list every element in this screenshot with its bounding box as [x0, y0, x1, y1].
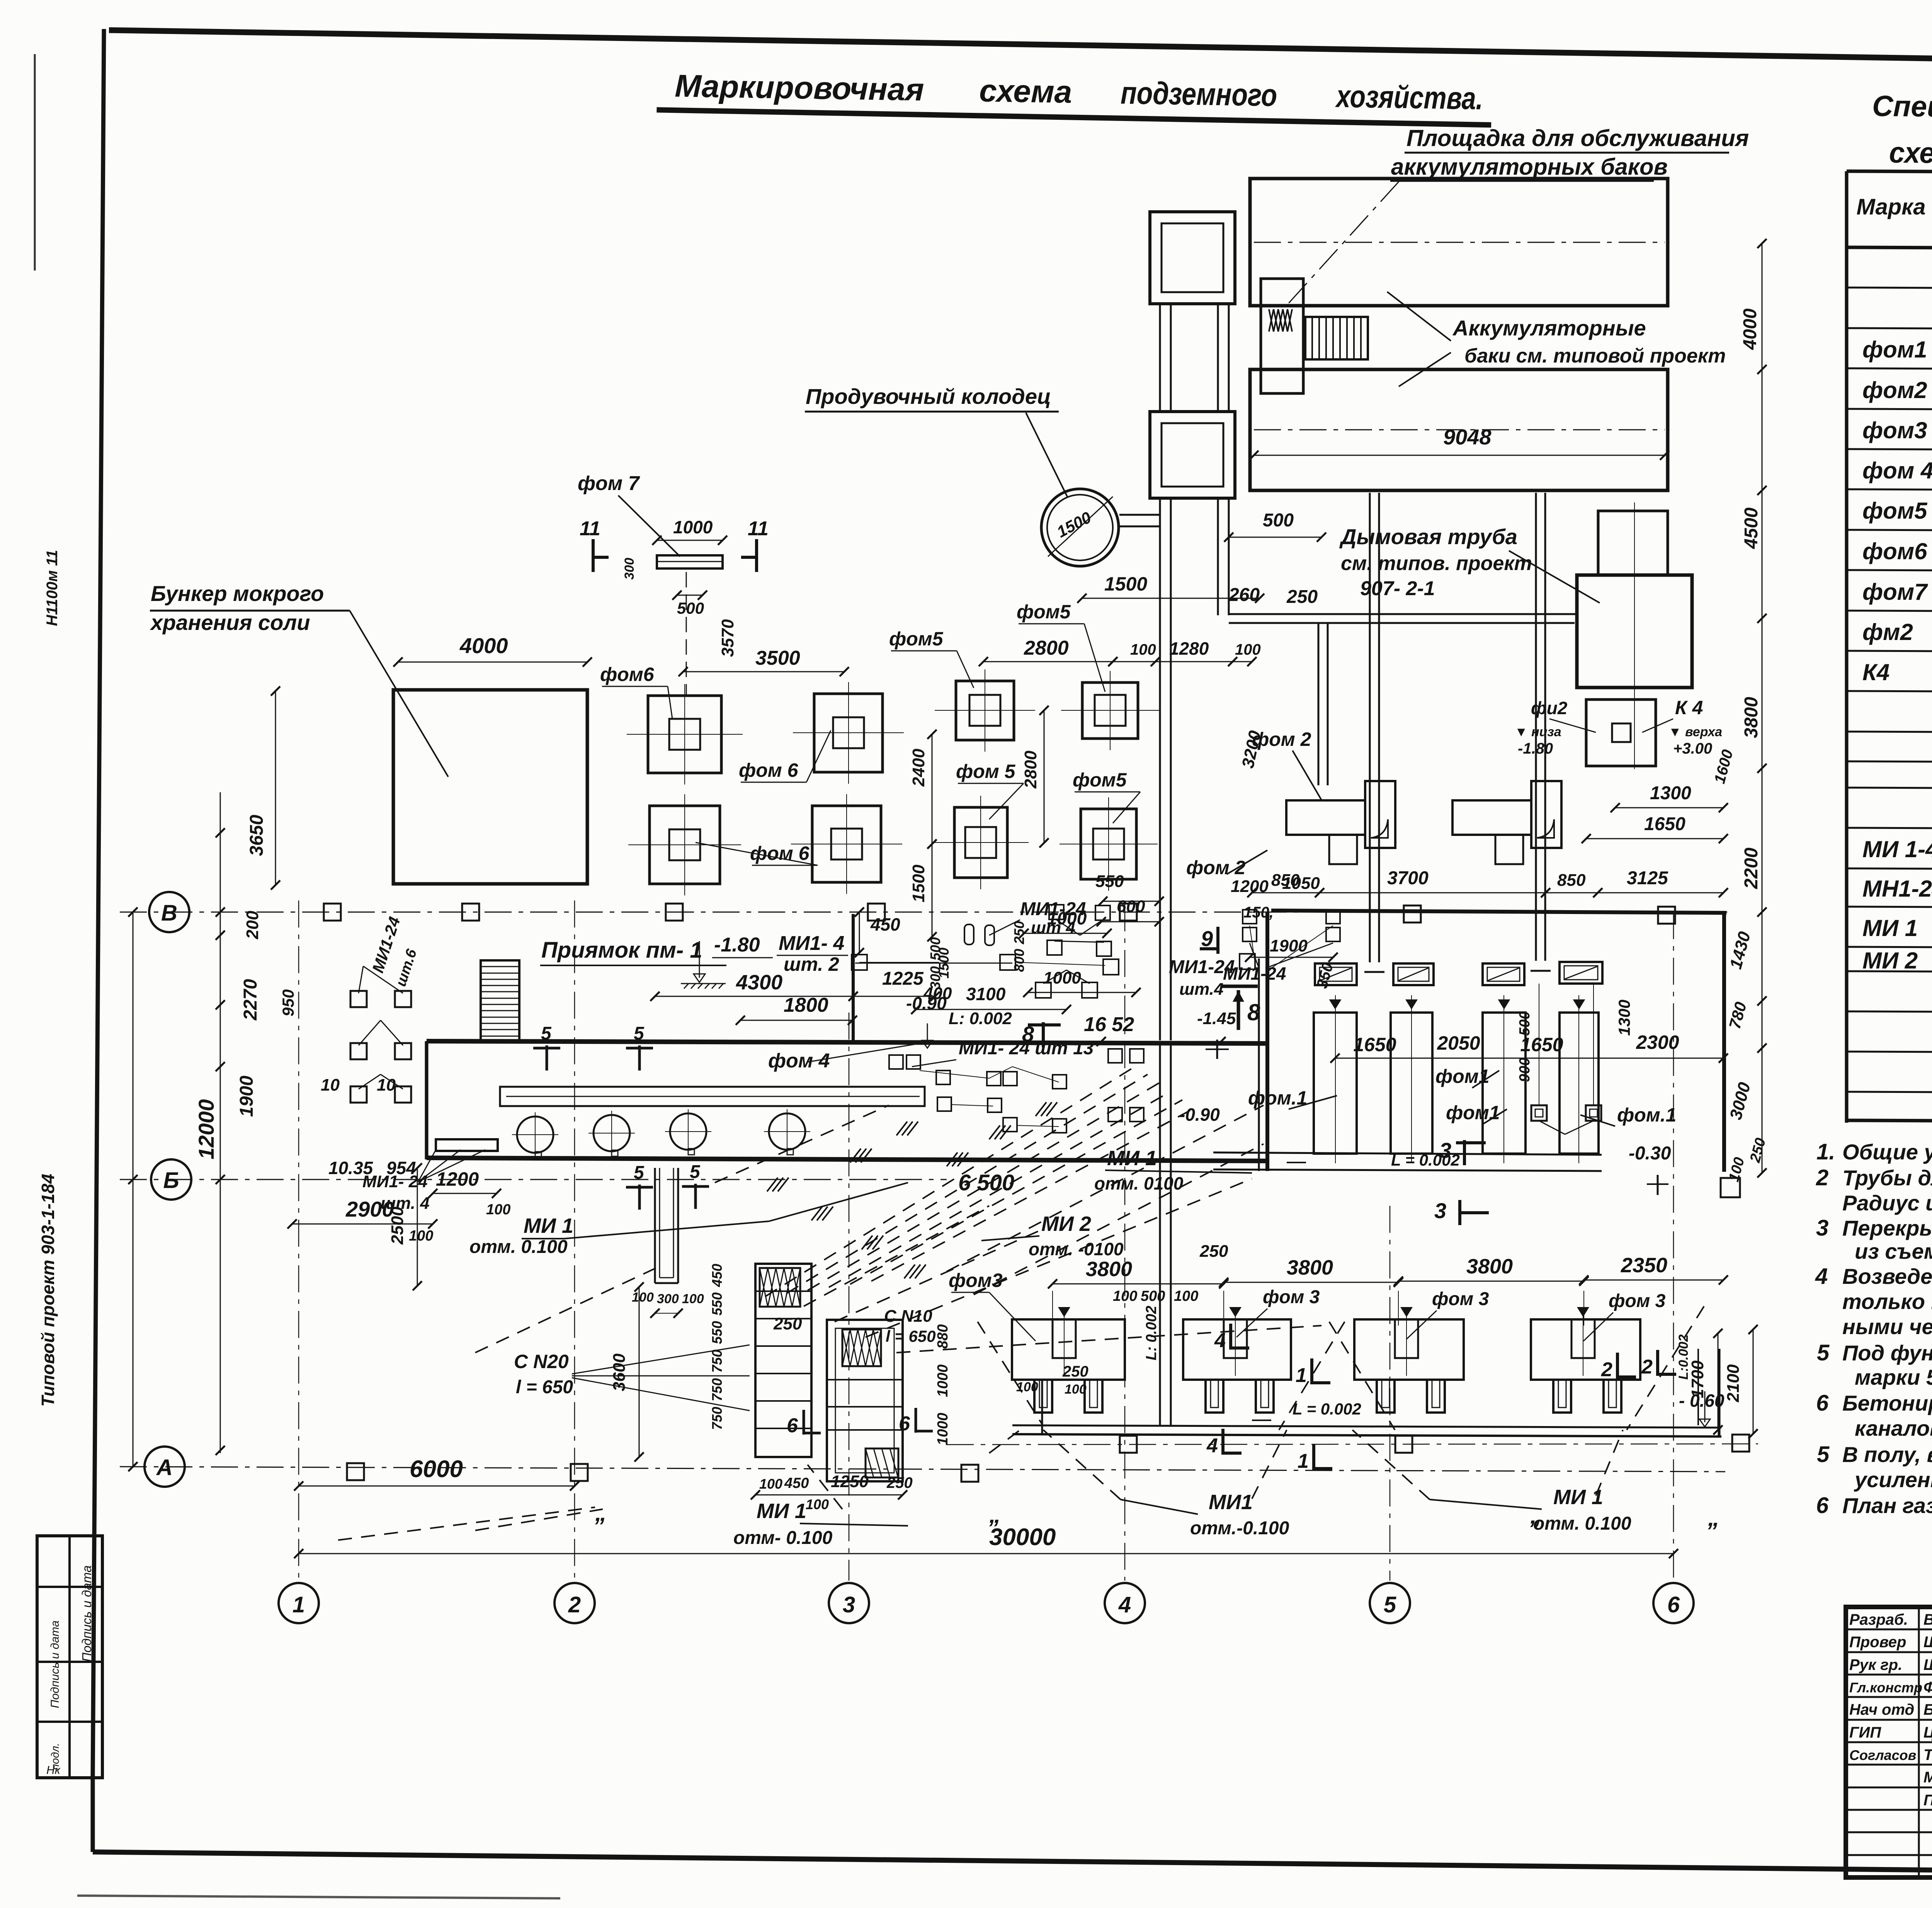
svg-text:1: 1: [1296, 1364, 1307, 1387]
svg-text:Шенкман: Шенкман: [1923, 1634, 1932, 1651]
svg-text:1650: 1650: [1353, 1034, 1396, 1055]
svg-text:6 500: 6 500: [958, 1170, 1014, 1195]
svg-text:МИ 1: МИ 1: [1107, 1147, 1157, 1170]
svg-text:2: 2: [568, 1592, 581, 1617]
svg-text:1300: 1300: [1650, 783, 1691, 803]
svg-text:2300: 2300: [1636, 1031, 1679, 1053]
svg-text:Рук гр.: Рук гр.: [1849, 1656, 1902, 1673]
svg-text:усиленный пол см черт.: усиленный пол см черт. АР-6: [1854, 1467, 1932, 1492]
svg-text:1200: 1200: [436, 1168, 479, 1190]
svg-text:фом 7: фом 7: [578, 472, 640, 495]
svg-text:2800: 2800: [1021, 751, 1040, 789]
svg-text:250: 250: [773, 1314, 802, 1333]
svg-text:фом 4: фом 4: [1862, 458, 1932, 483]
svg-text:100: 100: [1130, 641, 1156, 658]
svg-text:1500: 1500: [909, 865, 928, 902]
svg-text:фом 4: фом 4: [768, 1050, 830, 1072]
svg-text:отм. -0100: отм. -0100: [1029, 1239, 1124, 1259]
svg-text:5: 5: [634, 1023, 645, 1044]
svg-text:фом 6: фом 6: [739, 759, 799, 781]
svg-text:1000: 1000: [673, 517, 713, 537]
svg-text:3570: 3570: [718, 619, 737, 657]
svg-text:Разраб.: Разраб.: [1849, 1611, 1908, 1628]
svg-text:Возведение фундаментов под: Возведение фундаментов под оборудование …: [1842, 1264, 1932, 1288]
svg-text:16 52: 16 52: [1084, 1013, 1134, 1036]
svg-text:3500: 3500: [755, 647, 800, 669]
svg-text:отм- 0.100: отм- 0.100: [733, 1528, 833, 1548]
svg-text:1800: 1800: [784, 994, 828, 1016]
svg-text:Дымовая труба: Дымовая труба: [1339, 524, 1517, 549]
svg-text:Нач отд: Нач отд: [1849, 1701, 1914, 1718]
svg-text:План газоходов см черт.: План газоходов см черт. КЖ-8: [1842, 1493, 1932, 1518]
svg-text:l = 650: l = 650: [516, 1377, 573, 1397]
svg-text:Согласов: Согласов: [1849, 1747, 1916, 1763]
svg-text:500: 500: [1141, 1288, 1165, 1304]
svg-text:Типовой проект 903-1-184: Типовой проект 903-1-184: [38, 1174, 58, 1407]
svg-text:3: 3: [843, 1592, 855, 1617]
svg-text:Подпись и дата: Подпись и дата: [80, 1565, 94, 1662]
svg-text:Радиус изгиба труб - 600 м: Радиус изгиба труб - 600 мм.: [1842, 1191, 1932, 1215]
svg-text:5: 5: [634, 1163, 645, 1183]
svg-text:Бирюков: Бирюков: [1923, 1701, 1932, 1718]
svg-text:5: 5: [1817, 1442, 1830, 1467]
svg-text:880: 880: [935, 1324, 951, 1349]
svg-text:отм.-0.100: отм.-0.100: [1190, 1518, 1289, 1539]
svg-text:С N20: С N20: [514, 1351, 569, 1372]
svg-text:250: 250: [1062, 1363, 1088, 1380]
svg-text:2500: 2500: [388, 1207, 407, 1245]
svg-text:2200: 2200: [1741, 848, 1762, 889]
svg-text:из съемных щитов см лис: из съемных щитов см лист Км-3 .: [1855, 1239, 1932, 1263]
svg-text:550: 550: [709, 1292, 725, 1316]
svg-text:„: „: [1530, 1503, 1542, 1528]
svg-text:3: 3: [1816, 1215, 1828, 1241]
svg-text:-1.80: -1.80: [714, 934, 760, 956]
svg-text:6000: 6000: [410, 1456, 463, 1482]
svg-text:МИ 1-4: МИ 1-4: [1862, 836, 1932, 862]
svg-text:4000: 4000: [1740, 308, 1760, 350]
svg-text:фом6: фом6: [600, 664, 655, 685]
svg-text:▼ низа: ▼ низа: [1515, 725, 1561, 739]
svg-text:фом1: фом1: [1862, 337, 1927, 363]
svg-text:-1.80: -1.80: [1518, 740, 1553, 757]
svg-text:баки см. типовой проект: баки см. типовой проект: [1464, 345, 1726, 367]
svg-text:Провер: Провер: [1849, 1634, 1906, 1651]
svg-text:6: 6: [787, 1414, 798, 1437]
svg-text:Под фундаменты и каналы: Под фундаменты и каналы принята подготов…: [1842, 1341, 1932, 1365]
svg-text:Терехов: Терехов: [1923, 1746, 1932, 1763]
svg-text:1: 1: [1298, 1450, 1309, 1472]
svg-text:1000: 1000: [1047, 908, 1087, 928]
svg-text:2: 2: [1601, 1358, 1612, 1381]
svg-text:шт.4: шт.4: [1179, 980, 1223, 999]
svg-text:1000: 1000: [1043, 968, 1081, 987]
svg-text:„: „: [989, 1502, 1001, 1528]
svg-text:Гл.констр: Гл.констр: [1849, 1680, 1922, 1695]
svg-text:шт. 2: шт. 2: [784, 953, 839, 975]
svg-text:-0.30: -0.30: [1629, 1143, 1671, 1164]
svg-text:9: 9: [1201, 926, 1213, 951]
svg-text:1280: 1280: [1169, 638, 1209, 659]
svg-text:3700: 3700: [1387, 868, 1429, 888]
svg-text:каналов производить без: каналов производить без перерыва во врем…: [1855, 1416, 1932, 1440]
svg-text:1: 1: [293, 1592, 305, 1617]
svg-text:100: 100: [1065, 1382, 1087, 1397]
svg-text:100: 100: [1235, 641, 1261, 658]
svg-text:4: 4: [1206, 1435, 1218, 1457]
svg-text:фом7: фом7: [1862, 579, 1928, 605]
svg-text:МИ 2: МИ 2: [1862, 948, 1918, 974]
svg-text:К4: К4: [1862, 659, 1889, 685]
svg-text:ГИП: ГИП: [1849, 1724, 1881, 1741]
svg-text:3650: 3650: [247, 815, 267, 856]
svg-text:+3.00: +3.00: [1673, 740, 1712, 757]
svg-text:800: 800: [1011, 949, 1027, 972]
svg-text:В: В: [161, 900, 177, 926]
svg-text:Виленская: Виленская: [1923, 1611, 1932, 1628]
svg-text:5: 5: [1384, 1592, 1396, 1617]
svg-text:Трубы для кабелей проложит: Трубы для кабелей проложить под наблюден…: [1842, 1166, 1932, 1190]
svg-text:10: 10: [321, 1076, 340, 1094]
svg-text:300: 300: [927, 966, 943, 989]
svg-text:250: 250: [1286, 587, 1318, 607]
svg-text:Перекрытие каналов рифлено: Перекрытие каналов рифленой сталью выпол…: [1842, 1216, 1932, 1240]
svg-text:„: „: [595, 1500, 607, 1526]
svg-text:4: 4: [1118, 1592, 1131, 1617]
svg-text:30000: 30000: [989, 1524, 1056, 1551]
svg-text:Подпись и дата: Подпись и дата: [49, 1620, 61, 1708]
svg-text:отм. 0.100: отм. 0.100: [1533, 1513, 1631, 1534]
svg-text:фом5: фом5: [1862, 498, 1928, 524]
svg-text:Цыгрик: Цыгрик: [1923, 1724, 1932, 1741]
svg-text:1650: 1650: [1644, 814, 1685, 834]
svg-text:Бетонирование стенок и дни: Бетонирование стенок и днища неармирован…: [1842, 1391, 1932, 1415]
svg-text:100: 100: [1113, 1288, 1137, 1304]
svg-text:100: 100: [759, 1476, 782, 1492]
svg-text:МН1-24: МН1-24: [1862, 876, 1932, 902]
svg-text:5: 5: [690, 1162, 701, 1182]
svg-text:хозяйства.: хозяйства.: [1335, 79, 1483, 116]
svg-text:фом2: фом2: [1862, 377, 1927, 403]
svg-text:МИ 2: МИ 2: [1041, 1212, 1091, 1236]
svg-text:только после сверки рабочих: только после сверки рабочих чертежей фун…: [1842, 1289, 1932, 1314]
svg-text:фи2: фи2: [1531, 698, 1568, 718]
svg-text:схема: схема: [979, 73, 1072, 110]
svg-text:Продувочный колодец: Продувочный колодец: [806, 384, 1051, 408]
svg-text:В полу, в местах установки: В полу, в местах установки закладных изд…: [1842, 1442, 1932, 1467]
svg-text:фом6: фом6: [1862, 538, 1927, 564]
svg-text:МИ 1: МИ 1: [757, 1500, 806, 1523]
svg-text:МИ 1: МИ 1: [1553, 1486, 1603, 1509]
svg-text:500: 500: [1263, 510, 1294, 531]
svg-text:450: 450: [870, 914, 900, 934]
svg-text:ными чертежами полученными: ными чертежами полученными от завода- из…: [1842, 1314, 1932, 1339]
svg-text:1700: 1700: [1688, 1360, 1707, 1398]
svg-text:подземного: подземного: [1121, 75, 1277, 113]
svg-text:фом.1: фом.1: [1617, 1104, 1676, 1126]
svg-text:хранения соли: хранения соли: [150, 610, 310, 635]
svg-text:схемам расположенным на: схемам расположенным на листе: [1889, 136, 1932, 174]
svg-text:МИ 1: МИ 1: [1862, 915, 1918, 941]
svg-text:Марка: Марка: [1856, 194, 1925, 220]
svg-text:550: 550: [1095, 872, 1124, 891]
svg-text:фом5: фом5: [889, 628, 944, 650]
svg-text:МИ1: МИ1: [1209, 1491, 1253, 1514]
svg-text:l = 650: l = 650: [886, 1327, 936, 1345]
svg-text:-1.45: -1.45: [1197, 1009, 1236, 1028]
svg-text:Н1100м 11: Н1100м 11: [44, 550, 61, 626]
svg-text:1500: 1500: [1104, 573, 1147, 595]
svg-text:3800: 3800: [1741, 697, 1762, 738]
svg-text:2270: 2270: [240, 979, 261, 1021]
svg-text:▼ верха: ▼ верха: [1668, 725, 1722, 739]
svg-text:L: 0.002: L: 0.002: [949, 1009, 1012, 1028]
svg-text:Б: Б: [163, 1168, 179, 1193]
svg-text:1050: 1050: [1282, 874, 1320, 893]
svg-text:МИ1-24: МИ1-24: [1223, 963, 1286, 984]
svg-text:Мельникова: Мельникова: [1923, 1769, 1932, 1786]
svg-text:фом1: фом1: [1446, 1102, 1500, 1123]
svg-text:750: 750: [709, 1378, 725, 1401]
svg-text:2: 2: [1816, 1165, 1828, 1190]
svg-text:L: 0.002: L: 0.002: [1143, 1305, 1160, 1360]
svg-text:Фаминский: Фаминский: [1923, 1679, 1932, 1696]
svg-text:МИ 1: МИ 1: [524, 1214, 573, 1237]
svg-text:МИ1- 4: МИ1- 4: [779, 932, 844, 955]
svg-text:750: 750: [709, 1350, 725, 1373]
svg-text:1200: 1200: [1231, 877, 1269, 896]
svg-text:Нк: Нк: [46, 1764, 61, 1777]
svg-text:3100: 3100: [966, 984, 1006, 1004]
svg-text:4300: 4300: [736, 971, 782, 994]
svg-text:4000: 4000: [459, 633, 508, 658]
svg-text:Общие указания см. лис: Общие указания см. лист КЖ- 1 .: [1842, 1140, 1932, 1164]
svg-text:750: 750: [709, 1407, 725, 1430]
svg-text:260: 260: [1228, 585, 1260, 605]
svg-text:Приямок пм- 1: Приямок пм- 1: [541, 938, 702, 963]
svg-text:600: 600: [1117, 897, 1145, 916]
svg-text:450: 450: [784, 1475, 809, 1491]
svg-text:фом 3: фом 3: [1432, 1289, 1489, 1309]
svg-text:фом.1: фом.1: [1248, 1087, 1307, 1109]
svg-text:„: „: [1708, 1505, 1719, 1531]
svg-text:Маркировочная: Маркировочная: [675, 68, 924, 107]
svg-text:фм2: фм2: [1862, 619, 1913, 645]
svg-text:1000: 1000: [935, 1413, 951, 1445]
svg-text:С N10: С N10: [884, 1307, 932, 1326]
svg-text:L = 0.002: L = 0.002: [1293, 1400, 1361, 1418]
svg-text:Шенкман: Шенкман: [1923, 1656, 1932, 1673]
svg-text:Аккумуляторные: Аккумуляторные: [1452, 316, 1646, 340]
svg-text:500: 500: [677, 599, 704, 617]
svg-text:950: 950: [279, 989, 297, 1016]
svg-text:фом3: фом3: [1862, 417, 1927, 443]
svg-text:3800: 3800: [1287, 1256, 1333, 1279]
svg-text:фом 6: фом 6: [750, 843, 810, 864]
svg-text:11: 11: [580, 517, 600, 540]
svg-text:9048: 9048: [1443, 425, 1492, 449]
svg-text:2: 2: [1641, 1356, 1653, 1378]
svg-text:1.: 1.: [1816, 1139, 1835, 1164]
svg-text:1900: 1900: [1270, 936, 1308, 955]
svg-text:500: 500: [927, 937, 943, 960]
svg-text:Площадка для обслуживания: Площадка для обслуживания: [1406, 125, 1749, 151]
svg-text:300: 300: [622, 558, 637, 580]
svg-text:-0.90: -0.90: [1179, 1105, 1220, 1125]
svg-text:200: 200: [243, 911, 262, 940]
svg-text:марки 50 толщин 100 мм.: марки 50 толщин 100 мм.: [1855, 1365, 1932, 1389]
svg-text:6: 6: [1667, 1592, 1680, 1617]
svg-text:150,: 150,: [1243, 904, 1274, 921]
svg-text:фом5: фом5: [1017, 601, 1071, 623]
svg-text:100: 100: [1174, 1288, 1198, 1304]
svg-text:100: 100: [632, 1290, 654, 1305]
svg-text:5: 5: [541, 1023, 552, 1044]
svg-text:3800: 3800: [1086, 1258, 1132, 1281]
svg-text:3: 3: [1434, 1198, 1446, 1223]
svg-text:2100: 2100: [1724, 1364, 1743, 1402]
svg-text:850: 850: [1557, 871, 1586, 890]
svg-text:5: 5: [1817, 1340, 1830, 1365]
svg-text:100: 100: [682, 1292, 704, 1306]
svg-text:12000: 12000: [194, 1099, 218, 1159]
svg-text:1900: 1900: [236, 1076, 257, 1117]
svg-text:МИ1- 24 шт 13: МИ1- 24 шт 13: [959, 1038, 1094, 1059]
svg-text:8: 8: [1247, 999, 1260, 1025]
svg-text:1250: 1250: [831, 1472, 869, 1491]
svg-text:100: 100: [806, 1496, 829, 1512]
svg-text:2050: 2050: [1437, 1032, 1480, 1054]
svg-text:6: 6: [899, 1413, 910, 1435]
svg-text:К 4: К 4: [1675, 697, 1703, 718]
svg-text:250: 250: [1199, 1242, 1228, 1261]
svg-text:фом3: фом3: [949, 1270, 1003, 1291]
svg-text:100: 100: [486, 1202, 510, 1218]
svg-text:отм. 0.100: отм. 0.100: [469, 1237, 568, 1257]
svg-text:4: 4: [1815, 1264, 1828, 1289]
svg-text:250: 250: [886, 1474, 913, 1491]
svg-text:907- 2-1: 907- 2-1: [1360, 577, 1435, 600]
svg-text:3: 3: [1439, 1138, 1451, 1163]
svg-text:1000: 1000: [935, 1364, 951, 1397]
svg-text:1650: 1650: [1520, 1034, 1563, 1055]
svg-text:11: 11: [748, 517, 769, 540]
svg-text:100: 100: [409, 1228, 433, 1244]
svg-text:Пархомовский: Пархомовский: [1923, 1792, 1932, 1809]
svg-text:фом 5: фом 5: [956, 761, 1016, 782]
svg-text:см. типов. проект: см. типов. проект: [1341, 552, 1532, 575]
svg-text:3800: 3800: [1466, 1255, 1513, 1278]
svg-text:450: 450: [709, 1264, 725, 1287]
svg-text:фом 3: фом 3: [1609, 1291, 1666, 1311]
svg-text:аккумуляторных баков: аккумуляторных баков: [1391, 154, 1668, 180]
svg-text:4: 4: [1214, 1329, 1226, 1352]
svg-text:фом1: фом1: [1435, 1065, 1490, 1087]
svg-text:Бункер мокрого: Бункер мокрого: [151, 581, 324, 606]
svg-text:1225: 1225: [882, 968, 924, 989]
svg-text:300: 300: [657, 1292, 679, 1306]
svg-text:А: А: [156, 1455, 173, 1480]
svg-text:4500: 4500: [1741, 507, 1762, 549]
svg-text:2400: 2400: [909, 749, 928, 787]
svg-text:6: 6: [1816, 1493, 1829, 1518]
svg-text:2800: 2800: [1024, 637, 1069, 659]
svg-text:550: 550: [709, 1321, 725, 1344]
svg-text:фом 3: фом 3: [1263, 1287, 1320, 1307]
svg-text:1300: 1300: [1615, 1000, 1633, 1036]
svg-text:фом5: фом5: [1073, 769, 1127, 791]
svg-text:2350: 2350: [1621, 1254, 1667, 1277]
svg-text:3125: 3125: [1627, 868, 1668, 888]
svg-text:6: 6: [1816, 1391, 1829, 1416]
